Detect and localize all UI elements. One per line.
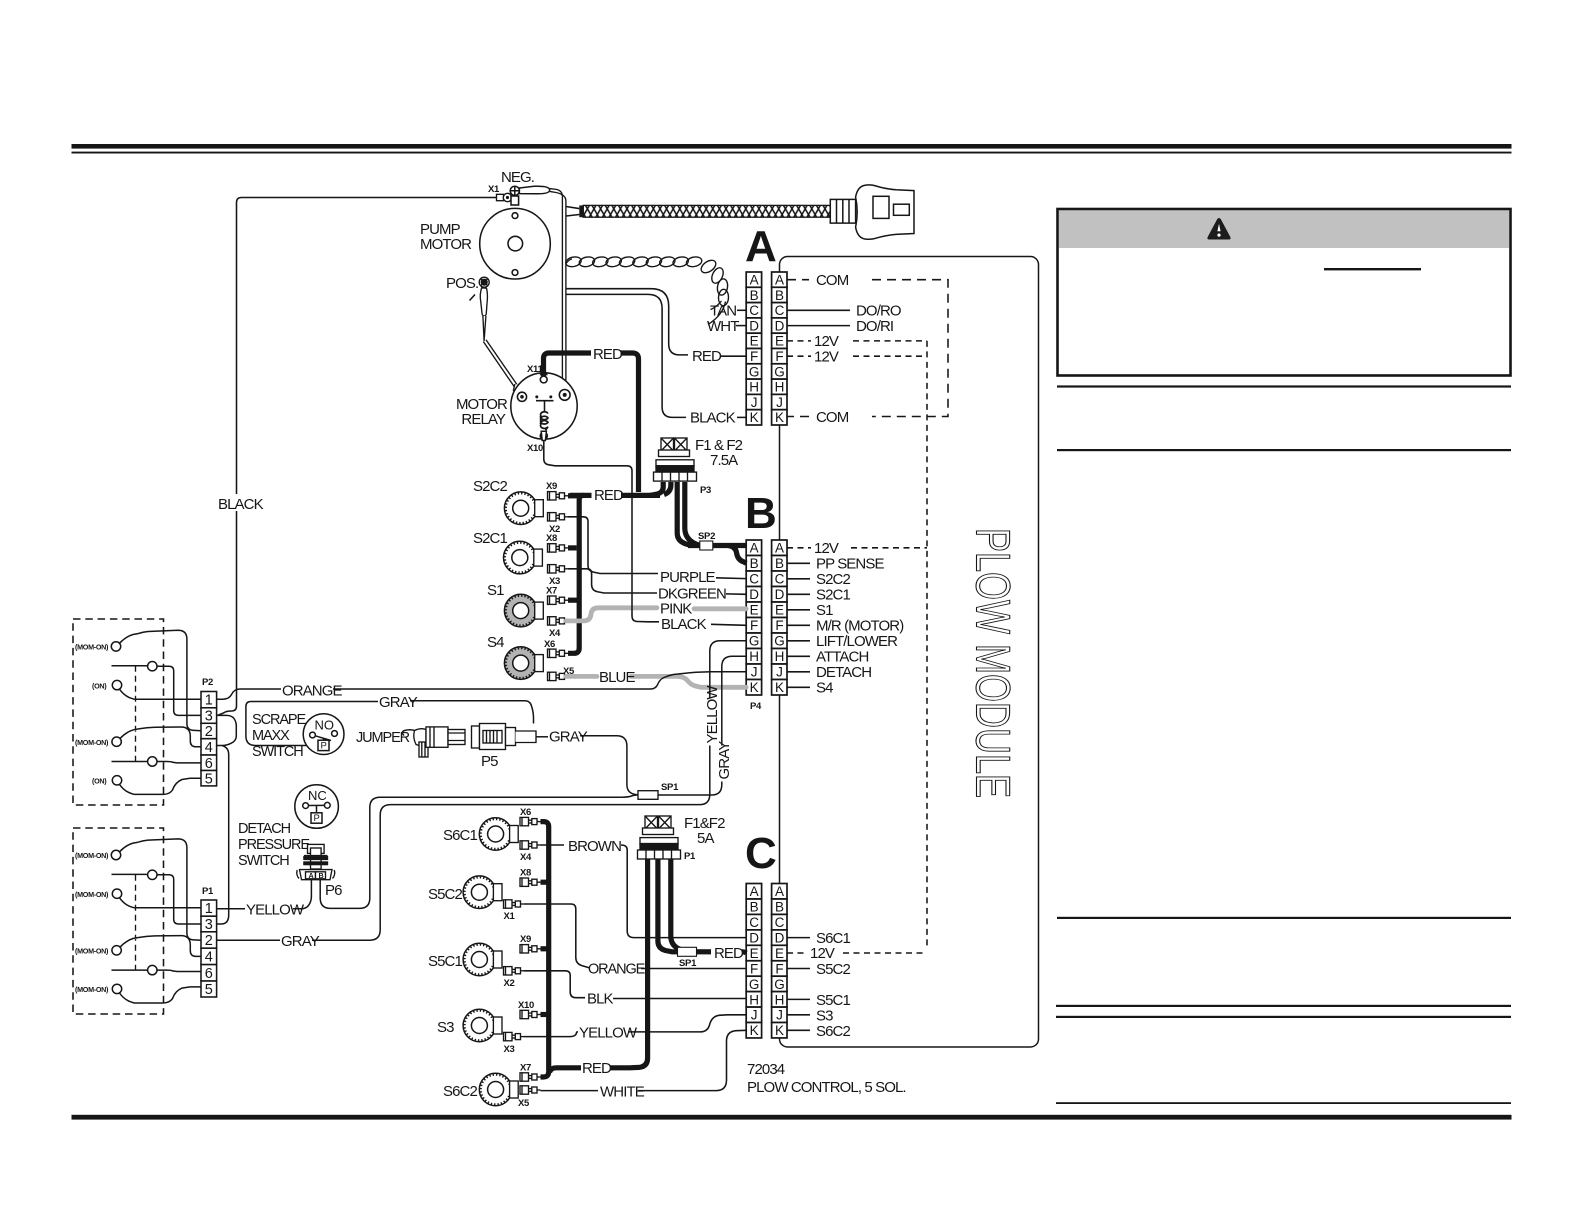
wire sw1 mid to P2 pin 3 — [157, 666, 201, 715]
svg-text:F: F — [750, 349, 758, 364]
right column rule 2 — [1057, 449, 1511, 451]
svg-text:F: F — [775, 618, 783, 633]
net 12V dashed A-E A-F with vertical feed to B-A and C-E — [787, 341, 927, 953]
svg-text:E: E — [750, 946, 759, 961]
svg-text:(MOM-ON): (MOM-ON) — [75, 946, 109, 955]
svg-text:GRAY: GRAY — [379, 694, 418, 711]
svg-text:SWITCH: SWITCH — [238, 853, 289, 869]
svg-text:1: 1 — [205, 693, 213, 709]
svg-text:H: H — [749, 380, 758, 395]
svg-text:RED: RED — [594, 487, 624, 504]
svg-text:P2: P2 — [202, 677, 213, 688]
svg-text:B: B — [745, 489, 777, 538]
svg-text:ATTACH: ATTACH — [816, 649, 868, 666]
label BLACK on vertical wire — [217, 494, 255, 511]
svg-text:12V: 12V — [814, 333, 839, 350]
svg-text:X5: X5 — [518, 1098, 530, 1109]
svg-text:E: E — [775, 334, 784, 349]
svg-text:(MOM-ON): (MOM-ON) — [75, 985, 109, 994]
svg-text:6: 6 — [205, 756, 213, 772]
svg-text:C: C — [775, 915, 785, 930]
connector B right pin column — [772, 540, 787, 695]
NO pressure switch symbol — [303, 714, 344, 755]
svg-text:SP1: SP1 — [661, 782, 679, 793]
svg-text:12V: 12V — [814, 349, 839, 366]
warning box gray header band — [1059, 211, 1509, 249]
svg-text:H: H — [775, 649, 784, 664]
svg-text:D: D — [749, 318, 759, 333]
svg-text:X3: X3 — [504, 1044, 515, 1055]
P1 pin numbers — [205, 901, 213, 998]
svg-text:J: J — [776, 665, 782, 680]
svg-text:NC: NC — [308, 788, 327, 803]
svg-text:JUMPER: JUMPER — [356, 730, 410, 746]
svg-text:B: B — [775, 900, 784, 915]
P2 connector stack — [201, 692, 217, 786]
pump motor body — [480, 196, 551, 279]
svg-text:K: K — [775, 680, 784, 695]
solenoid S1 gray — [504, 594, 543, 627]
right column rule 1 below warning box — [1057, 385, 1511, 387]
svg-text:S5C2: S5C2 — [816, 961, 850, 978]
svg-text:E: E — [750, 603, 759, 618]
svg-text:A: A — [750, 541, 759, 556]
svg-text:P3: P3 — [700, 485, 711, 496]
svg-text:D: D — [775, 931, 785, 946]
wire sw1 bottom to P2 pin 1 — [134, 698, 201, 700]
wire BLACK from X1 to P2 pin 3 (long left vertical) — [218, 198, 496, 716]
svg-text:C: C — [775, 303, 785, 318]
switch sw1 top contact MOM-ON — [111, 634, 138, 652]
svg-text:D: D — [775, 318, 785, 333]
svg-text:C: C — [745, 829, 777, 878]
wire WHITE from X5 to pin C-K — [541, 1090, 599, 1092]
svg-text:RED: RED — [692, 348, 722, 365]
svg-text:C: C — [749, 572, 759, 587]
spade X7 — [548, 596, 569, 604]
svg-text:J: J — [776, 395, 782, 410]
svg-text:X10: X10 — [518, 1000, 534, 1011]
svg-text:H: H — [749, 649, 758, 664]
svg-text:S3: S3 — [816, 1008, 833, 1025]
svg-text:COM: COM — [816, 272, 849, 289]
relay coil — [540, 412, 548, 430]
svg-text:D: D — [775, 587, 785, 602]
svg-text:2: 2 — [205, 933, 213, 949]
spade X2 lower — [504, 967, 525, 975]
wire sw2 bottom to P2 pin 5 — [134, 778, 201, 794]
svg-text:4: 4 — [205, 950, 213, 966]
wire GRAY from P5 to SP1 — [536, 736, 548, 738]
spade X6 lower cluster — [520, 817, 541, 825]
svg-text:S6C2: S6C2 — [443, 1083, 477, 1100]
wire YELLOW P1 pin1 to P6 A — [217, 908, 245, 910]
svg-text:S4: S4 — [816, 680, 833, 697]
svg-text:7.5A: 7.5A — [710, 452, 738, 469]
svg-text:A: A — [775, 541, 784, 556]
connector P5 left shell — [414, 727, 465, 757]
solenoid S3 — [463, 1009, 502, 1042]
switch sw2 bottom contact ON — [112, 776, 134, 795]
svg-text:S6C1: S6C1 — [816, 930, 850, 947]
svg-text:C: C — [749, 915, 759, 930]
svg-text:K: K — [775, 410, 784, 425]
svg-text:X1: X1 — [488, 184, 500, 195]
svg-text:ORANGE: ORANGE — [588, 962, 646, 978]
wire sw3 bottom to P1 pin 1 — [134, 907, 201, 909]
svg-text:SP1: SP1 — [679, 958, 697, 969]
svg-text:X6: X6 — [520, 807, 531, 818]
svg-text:3: 3 — [205, 709, 213, 725]
svg-text:X6: X6 — [544, 639, 555, 650]
svg-text:G: G — [749, 634, 759, 649]
thick wire fuse P3 to SP2 and pins B-A B-B — [677, 482, 746, 563]
SP1 splice marker lower — [678, 947, 697, 956]
svg-text:S2C2: S2C2 — [816, 571, 850, 588]
wire DO/RO row A-C — [787, 309, 850, 311]
wire PINK gray from X4 to pin B-E — [566, 608, 746, 621]
svg-text:D: D — [749, 931, 759, 946]
terminal X1 connector pigtail — [497, 193, 512, 201]
svg-text:12V: 12V — [814, 540, 839, 557]
svg-text:POS.: POS. — [446, 275, 478, 292]
svg-text:WHITE: WHITE — [600, 1084, 645, 1101]
wire branch from NEG lead to RED label and pin A-F — [566, 289, 688, 355]
svg-text:(MOM-ON): (MOM-ON) — [75, 851, 109, 860]
svg-text:A: A — [745, 222, 777, 271]
wire BROWN from X4 to pin C-D — [541, 845, 747, 938]
wire PURPLE from X2 to pin B-C — [568, 517, 658, 574]
wire DKGREEN from X3 to pin B-D — [568, 569, 657, 593]
svg-text:F: F — [775, 961, 783, 976]
svg-text:6: 6 — [205, 966, 213, 982]
svg-text:BLACK: BLACK — [218, 496, 264, 513]
solenoid S6C1 — [479, 818, 518, 851]
svg-text:J: J — [751, 1008, 757, 1023]
node COM row A dashed loop — [787, 280, 948, 417]
label YELLOW rotated on pin G drop — [704, 685, 721, 746]
svg-text:G: G — [749, 364, 759, 379]
svg-text:X7: X7 — [546, 586, 557, 597]
svg-text:YELLOW: YELLOW — [704, 685, 721, 744]
svg-text:P1: P1 — [684, 851, 696, 862]
switch sw4 bottom contact — [112, 984, 134, 1003]
svg-text:(MOM-ON): (MOM-ON) — [75, 738, 109, 747]
svg-text:K: K — [750, 680, 759, 695]
spade X1 lower — [504, 900, 525, 908]
svg-text:J: J — [751, 665, 757, 680]
svg-text:S4: S4 — [487, 634, 504, 651]
svg-text:5: 5 — [205, 772, 213, 788]
spade X8 — [548, 544, 569, 552]
wire sw3 top to P1 pin 2 — [138, 839, 201, 940]
svg-text:P4: P4 — [750, 701, 762, 712]
thick wires fuse P1 legs — [550, 859, 747, 1073]
svg-text:H: H — [749, 992, 758, 1007]
svg-text:B: B — [750, 900, 759, 915]
svg-text:F: F — [750, 618, 758, 633]
svg-text:BROWN: BROWN — [568, 838, 621, 855]
svg-text:BLUE: BLUE — [599, 669, 635, 686]
svg-text:X8: X8 — [546, 533, 557, 544]
svg-text:DETACH: DETACH — [238, 821, 291, 837]
svg-text:K: K — [775, 1023, 784, 1038]
svg-text:C: C — [775, 572, 785, 587]
svg-text:S5C1: S5C1 — [428, 953, 462, 970]
right column rule 4 (upper of pair) — [1056, 1005, 1511, 1007]
battery cable plug body — [856, 185, 914, 239]
thick trunk bottom solenoid cluster — [541, 822, 549, 1077]
switch sw1 mid contact — [112, 662, 158, 671]
svg-text:(ON): (ON) — [92, 777, 107, 786]
wire P2 pin4 down to P1 pin 3 long vertical — [217, 746, 229, 925]
switch sw2 mid contact — [112, 757, 158, 766]
svg-text:DO/RO: DO/RO — [856, 303, 901, 320]
svg-text:YELLOW: YELLOW — [579, 1025, 638, 1042]
svg-text:BLK: BLK — [587, 991, 614, 1008]
svg-text:BLACK: BLACK — [661, 616, 707, 633]
svg-text:A: A — [775, 273, 784, 288]
svg-text:S3: S3 — [437, 1019, 454, 1036]
svg-text:G: G — [774, 364, 784, 379]
wire sw4 top to P1 pin 4 — [139, 936, 202, 957]
braided battery cable — [579, 205, 583, 217]
svg-text:YELLOW: YELLOW — [246, 902, 305, 919]
thick solenoid trunk stubs upper spades — [568, 496, 579, 654]
switch sw3 bottom contact — [112, 889, 134, 908]
spade X3 — [548, 565, 569, 573]
svg-text:SCRAPE: SCRAPE — [252, 712, 306, 728]
svg-text:2: 2 — [205, 724, 213, 740]
solenoid S2C1 — [504, 541, 543, 574]
spade X5 lower — [520, 1086, 541, 1094]
svg-text:X9: X9 — [520, 934, 531, 945]
solenoid S5C1 — [463, 943, 502, 976]
wire BLUE gray from X5 to pin B-K — [566, 676, 746, 687]
svg-text:(MOM-ON): (MOM-ON) — [75, 643, 109, 652]
spade X4 lower cluster — [520, 841, 541, 849]
svg-text:K: K — [750, 1023, 759, 1038]
wire YELLOW from X3 to pin C-J — [524, 1032, 578, 1037]
svg-text:A: A — [750, 884, 759, 899]
svg-text:S5C1: S5C1 — [816, 992, 850, 1009]
wire GRAY P1 pin2 to pin B-G via long route — [217, 939, 280, 941]
fuse block F1 F2 (P3) — [654, 438, 697, 481]
solenoid S4 gray — [504, 647, 543, 680]
svg-text:B: B — [775, 288, 784, 303]
svg-text:A: A — [750, 273, 759, 288]
svg-text:GRAY: GRAY — [716, 741, 733, 780]
wire sw4 mid to P1 pin 6 — [157, 970, 201, 971]
dashed common link box2 — [135, 875, 137, 970]
svg-text:G: G — [774, 634, 784, 649]
svg-text:MAXX: MAXX — [252, 728, 290, 744]
svg-text:B: B — [750, 288, 759, 303]
svg-text:PLOW CONTROL, 5 SOL.: PLOW CONTROL, 5 SOL. — [747, 1079, 906, 1096]
wire BLK from X2 to pin C-H — [524, 971, 585, 998]
svg-text:3: 3 — [205, 917, 213, 933]
svg-text:4: 4 — [205, 740, 213, 756]
svg-text:ORANGE: ORANGE — [282, 683, 343, 700]
svg-text:X9: X9 — [546, 481, 557, 492]
svg-text:DO/RI: DO/RI — [856, 318, 893, 335]
svg-text:P1: P1 — [202, 886, 214, 897]
wire sw2 mid to P2 pin 6 — [157, 762, 201, 763]
svg-text:P: P — [321, 741, 327, 752]
wire P6 B to pin B-G via long route — [320, 795, 638, 909]
POS terminal stud — [479, 277, 489, 287]
svg-text:X4: X4 — [520, 852, 532, 863]
underline segment inside warning box — [1324, 268, 1421, 270]
wire P2 pin3 jog to pin 4 cascade — [217, 715, 236, 745]
relay X10 stud — [540, 431, 547, 440]
svg-text:S5C2: S5C2 — [428, 886, 462, 903]
svg-text:NO: NO — [315, 718, 335, 733]
svg-text:S2C2: S2C2 — [473, 478, 507, 495]
P1 connector stack — [201, 900, 217, 997]
wire ORANGE from X1 to pin C-F — [524, 904, 590, 968]
braid to NEG wire link — [566, 207, 579, 217]
solenoid S5C2 — [463, 876, 502, 909]
svg-text:TAN: TAN — [710, 303, 736, 320]
NEG wire lead pair to motor relay — [550, 189, 567, 392]
thick RED bus to solenoid trunk and fuse P3 legs — [570, 482, 671, 548]
wire sw3 mid to P1 pin 3 — [157, 875, 201, 924]
svg-text:B: B — [319, 871, 324, 880]
svg-text:D: D — [749, 587, 759, 602]
svg-text:C: C — [749, 303, 759, 318]
page bottom border thick rule — [72, 1115, 1512, 1120]
right column thin rule above bottom border — [1056, 1102, 1511, 1104]
svg-text:F: F — [750, 961, 758, 976]
switch sw4 top contact — [112, 938, 139, 956]
svg-text:X4: X4 — [549, 628, 561, 639]
svg-text:COM: COM — [816, 409, 849, 426]
svg-text:E: E — [750, 334, 759, 349]
svg-text:S2C1: S2C1 — [473, 530, 507, 547]
connector C left pin column — [746, 884, 761, 1038]
svg-text:BLACK: BLACK — [690, 410, 736, 427]
svg-text:5: 5 — [205, 982, 213, 998]
SP2 splice marker — [700, 541, 713, 550]
svg-text:J: J — [776, 1008, 782, 1023]
dashed common link box1 — [135, 666, 137, 762]
svg-text:GRAY: GRAY — [281, 933, 320, 950]
switch sw3 top contact — [111, 842, 138, 860]
svg-text:S2C1: S2C1 — [816, 587, 850, 604]
spade X7 lower — [520, 1073, 541, 1081]
spade X5 — [548, 672, 569, 680]
svg-text:WHT: WHT — [707, 318, 739, 335]
svg-text:PLOW MODULE: PLOW MODULE — [966, 528, 1019, 798]
svg-text:G: G — [774, 977, 784, 992]
spade X9 lower — [520, 945, 541, 953]
svg-text:PINK: PINK — [660, 601, 692, 618]
svg-text:PP SENSE: PP SENSE — [816, 556, 884, 573]
solenoid S6C2 — [479, 1073, 518, 1106]
svg-text:K: K — [750, 410, 759, 425]
svg-text:RELAY: RELAY — [461, 411, 505, 428]
label GRAY rotated on pin H drop — [716, 741, 733, 782]
switch sw2 top contact MOM-ON — [112, 729, 139, 747]
spade X4 — [548, 617, 569, 625]
svg-text:PURPLE: PURPLE — [660, 569, 716, 586]
svg-text:DETACH: DETACH — [816, 664, 871, 681]
battery cable connector ribbed collar — [830, 199, 855, 223]
connector B left pin column — [746, 540, 761, 695]
spade X8 lower — [520, 878, 541, 886]
svg-text:B: B — [750, 556, 759, 571]
thick RED wire from relay X11 up and over to trunk — [544, 353, 639, 492]
svg-text:X7: X7 — [520, 1063, 531, 1074]
twisted pair descending section — [699, 258, 729, 325]
P2 pin numbers — [205, 693, 213, 788]
connector C right side label stubs — [787, 938, 810, 1031]
spade X9 — [548, 492, 569, 500]
P6 detach pressure switch body — [297, 844, 335, 879]
wire branch from NEG lead to BLACK label and pin A-K — [566, 294, 686, 417]
SP1 splice marker upper — [638, 791, 658, 800]
svg-text:E: E — [775, 603, 784, 618]
svg-text:P: P — [314, 813, 320, 824]
svg-text:M/R (MOTOR): M/R (MOTOR) — [816, 618, 904, 635]
svg-text:MOTOR: MOTOR — [420, 236, 472, 253]
svg-text:H: H — [775, 380, 784, 395]
svg-text:(MOM-ON): (MOM-ON) — [75, 890, 109, 899]
svg-text:A: A — [309, 871, 314, 880]
warning box — [1058, 209, 1511, 376]
twisted pair wire horizontal run — [565, 256, 703, 268]
dashed switch box 2 — [73, 828, 164, 1014]
connector C right pin column — [772, 884, 787, 1038]
svg-text:RED: RED — [593, 346, 623, 363]
svg-text:S6C1: S6C1 — [443, 827, 477, 844]
svg-text:SP2: SP2 — [698, 531, 715, 542]
fuse block F1 F2 (P1) — [638, 816, 681, 859]
switch sw1 bottom contact ON — [112, 680, 134, 699]
NEG terminal stud with ring lug — [510, 186, 550, 195]
motor relay body — [511, 369, 577, 440]
svg-text:J: J — [751, 395, 757, 410]
svg-text:F: F — [775, 349, 783, 364]
wire ORANGE P2 pin1 to pin B-J — [217, 689, 281, 699]
connector A left pin column — [746, 272, 761, 425]
svg-text:NEG.: NEG. — [501, 169, 534, 186]
svg-text:PRESSURE: PRESSURE — [238, 837, 310, 853]
dashed switch box 1 — [73, 619, 164, 805]
svg-text:RED: RED — [714, 945, 744, 962]
svg-text:P6: P6 — [325, 882, 342, 899]
POS battery cable lug to relay arm — [480, 288, 522, 395]
POS. pointer tick — [470, 295, 476, 301]
svg-text:X10: X10 — [527, 443, 543, 454]
svg-text:X1: X1 — [504, 911, 516, 922]
wire BLACK from relay X10 to pin B-F — [544, 441, 659, 622]
connector A right pin column — [772, 272, 787, 425]
svg-text:E: E — [775, 946, 784, 961]
svg-text:(ON): (ON) — [92, 682, 107, 691]
svg-text:5A: 5A — [697, 830, 714, 847]
svg-text:72034: 72034 — [747, 1061, 785, 1078]
wire DO/RI row A-D — [787, 325, 850, 327]
wire SP1 to pin B-H — [658, 656, 746, 795]
svg-text:P5: P5 — [481, 753, 498, 770]
svg-text:S6C2: S6C2 — [816, 1023, 850, 1040]
switch sw3 mid contact — [112, 870, 158, 879]
PLOW MODULE enclosure outline — [780, 257, 1039, 1048]
svg-text:B: B — [775, 556, 784, 571]
right column rule 5 (lower of pair) — [1056, 1016, 1511, 1018]
